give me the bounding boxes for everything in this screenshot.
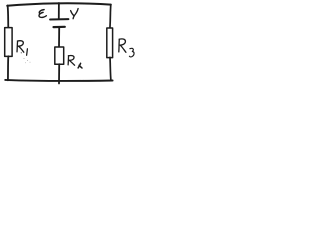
battery negative plate [54,26,65,29]
wire left lower [7,56,9,80]
resistor R3 [107,28,113,58]
battery positive plate [50,18,68,20]
wire battery top lead [58,3,60,18]
wire bottom [5,80,112,81]
wire battery to R2 [58,28,60,48]
label R3 [119,39,134,57]
wire top [7,3,111,6]
label R2 [68,55,82,68]
label r [71,9,79,19]
wire right upper [109,5,112,29]
wire right lower [109,57,112,80]
label epsilon [38,9,47,18]
resistor R2 [55,47,64,64]
wire left upper [7,6,10,28]
resistor R1 [5,28,12,57]
wire R2 to bottom [58,64,60,83]
label R1 [17,41,27,56]
stray mark speckles [21,52,31,63]
